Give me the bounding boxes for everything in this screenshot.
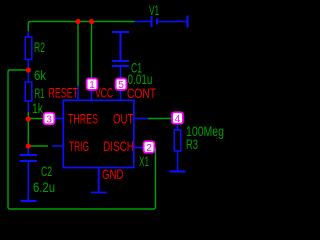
- resistor R3 bottom lead: [177, 151, 179, 171]
- svg-text:V1: V1: [149, 2, 159, 18]
- pin stub TRIG: [52, 145, 63, 147]
- battery V1 leads: [135, 21, 187, 23]
- svg-text:4: 4: [175, 114, 181, 125]
- battery V1 short plate: [156, 19, 158, 25]
- op-amp/IC X1 555 timer box: [63, 100, 134, 167]
- svg-text:1k: 1k: [32, 100, 44, 116]
- pin stub VCC: [91, 84, 93, 100]
- capacitor C2 top lead: [27, 146, 29, 154]
- svg-text:X1: X1: [139, 153, 149, 169]
- junction node R2/R1/DISCH: [26, 67, 31, 72]
- capacitor C1 plates: [112, 61, 129, 66]
- svg-text:6.2u: 6.2u: [33, 179, 55, 195]
- svg-text:THRES: THRES: [68, 111, 98, 127]
- wire: VCC top rail from R2 top to V1: [28, 22, 134, 38]
- junction node THRES: [26, 116, 31, 121]
- wire: OUT to R3: [148, 118, 172, 120]
- svg-text:OUT: OUT: [113, 111, 134, 127]
- resistor R3 top lead: [177, 123, 179, 130]
- pin number box 2 (DISCH): [143, 141, 155, 154]
- junction node at VCC/rail: [89, 19, 94, 24]
- resistor R2 body: [25, 37, 32, 60]
- capacitor C2 plates: [20, 155, 38, 161]
- pin number box 3 (THRES): [43, 112, 55, 125]
- svg-text:R2: R2: [34, 39, 45, 55]
- resistor R1 body: [25, 82, 32, 101]
- svg-text:TRIG: TRIG: [69, 138, 89, 154]
- svg-text:5: 5: [118, 80, 124, 91]
- resistor R3 body: [174, 130, 181, 151]
- wire: left column R1 bottom to C2 top node: [27, 112, 29, 146]
- resistor R2 bottom lead / R1 top lead: [27, 60, 29, 83]
- svg-text:C2: C2: [41, 163, 52, 179]
- pin stub THRES: [53, 118, 63, 120]
- svg-text:RESET: RESET: [49, 85, 79, 101]
- pin number box 4 (OUT): [171, 112, 183, 125]
- svg-text:CONT: CONT: [127, 85, 156, 101]
- ground bar at V1 right terminal: [186, 16, 188, 28]
- svg-text:GND: GND: [102, 166, 124, 182]
- svg-text:R1: R1: [35, 85, 45, 101]
- pin stub OUT: [134, 118, 148, 120]
- capacitor C2 bottom lead: [27, 162, 29, 200]
- svg-text:R3: R3: [186, 136, 198, 152]
- pin stub DISCH: [134, 147, 144, 149]
- capacitor C1 bottom lead into CONT pin: [120, 67, 122, 100]
- svg-text:6k: 6k: [34, 67, 47, 83]
- pin number box 1 (VCC): [86, 78, 98, 91]
- svg-text:1: 1: [89, 80, 95, 91]
- resistor R1 bottom lead: [27, 101, 29, 112]
- pin stub GND with ground bar: [91, 168, 107, 193]
- wire: RESET drop from rail: [77, 22, 79, 87]
- ground bar above C1: [112, 32, 129, 60]
- junction node TRIG/C2: [26, 143, 31, 148]
- pin number box 5 (CONT): [115, 78, 127, 91]
- resistor R2 lead top: [27, 31, 29, 37]
- wire: THRES horizontal: [28, 118, 48, 120]
- pin stub RESET: [77, 86, 79, 100]
- battery V1 long plate: [151, 16, 153, 27]
- ground bar below R3: [170, 170, 186, 172]
- svg-text:DISCH: DISCH: [103, 138, 134, 154]
- junction node at RESET/rail: [75, 19, 80, 24]
- svg-text:3: 3: [46, 115, 52, 126]
- wire: VCC pin drop from rail: [91, 22, 93, 85]
- wire: DISCH feedback loop via left rail and bottom rail: [8, 70, 156, 209]
- svg-text:2: 2: [146, 143, 152, 154]
- ground bar below C2: [21, 200, 37, 202]
- wire: TRIG horizontal: [28, 145, 48, 147]
